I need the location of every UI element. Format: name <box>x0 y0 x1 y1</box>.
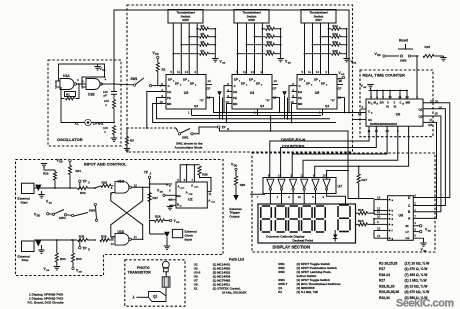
svg-text:15: 15 <box>377 226 381 230</box>
svg-text:14: 14 <box>316 70 320 74</box>
oscillator section dashed box <box>48 60 121 146</box>
svg-text:R32: R32 <box>43 171 49 175</box>
svg-text:R27: R27 <box>379 279 385 283</box>
wire digit strobe 1 <box>270 126 369 177</box>
svg-text:λ: λ <box>133 296 135 300</box>
photo transistor bulb <box>162 261 169 268</box>
svg-text:Parts List: Parts List <box>229 258 245 262</box>
svg-text:R1: R1 <box>278 290 282 294</box>
op-amp U2 box <box>176 182 207 208</box>
svg-text:R16: R16 <box>425 45 431 49</box>
wire digit strobe 4 <box>303 126 398 177</box>
svg-text:X1: X1 <box>194 286 198 290</box>
ground above R32 <box>41 163 47 165</box>
svg-text:R7: R7 <box>201 49 205 53</box>
test point TPB <box>218 126 220 128</box>
resistor R2 <box>157 59 159 63</box>
svg-text:Inh: Inh <box>167 90 171 94</box>
wire U2 Dis pin ground <box>168 199 176 201</box>
svg-text:OSCILLATOR: OSCILLATOR <box>57 137 83 142</box>
wire Q4 cascade bus <box>214 97 350 112</box>
wire decimal point drive <box>327 171 348 180</box>
svg-text:CF: CF <box>338 87 342 91</box>
wire BI LT to VDD <box>413 225 419 227</box>
photo transistor dashed box <box>125 260 185 306</box>
svg-text:R8: R8 <box>267 24 271 28</box>
wire VSS bus above U6 <box>369 90 408 92</box>
svg-text:R30: R30 <box>80 191 86 195</box>
ground U2 Bin <box>170 204 176 206</box>
svg-text:Decimal Point: Decimal Point <box>293 238 313 242</box>
wire R26 to Aout <box>200 175 212 192</box>
transistor Q1 symbol <box>149 292 167 302</box>
svg-text:U5: U5 <box>315 91 320 95</box>
counter IC U6 box <box>366 99 423 126</box>
svg-text:DP: DP <box>299 78 303 82</box>
svg-text:R29: R29 <box>102 180 108 184</box>
svg-text:R10: R10 <box>267 40 273 44</box>
resistor R26 <box>194 164 199 166</box>
svg-text:SW1: SW1 <box>182 136 189 140</box>
wire U5 Q4 to real time counter <box>344 97 346 112</box>
counter IC U3 box <box>166 75 206 110</box>
resistor network R12-R15 <box>329 28 332 30</box>
trigger output arrow <box>233 195 239 201</box>
svg-text:12: 12 <box>300 173 304 177</box>
svg-text:13: 13 <box>377 195 381 199</box>
svg-text:U6: U6 <box>396 113 401 117</box>
svg-text:St: St <box>394 105 397 109</box>
display digit 4 <box>303 205 311 207</box>
svg-text:SW5: SW5 <box>182 18 189 22</box>
wire inhibit line U3 <box>147 92 161 129</box>
wire digit strobe 3 <box>292 126 387 177</box>
svg-text:R17: R17 <box>379 267 385 271</box>
resistor 100k lower <box>113 126 116 135</box>
counter IC U5 box <box>297 75 337 110</box>
svg-text:R31: R31 <box>76 169 82 173</box>
resistor R32 <box>54 172 57 181</box>
svg-text:Q4: Q4 <box>325 104 329 108</box>
svg-text:18: 18 <box>435 111 439 115</box>
svg-text:"0": "0" <box>266 99 271 103</box>
svg-text:SW2: SW2 <box>400 59 407 63</box>
svg-text:DP: DP <box>241 82 245 86</box>
svg-text:U3: U3 <box>184 91 189 95</box>
svg-text:U1D: U1D <box>118 230 125 234</box>
ground below R3 <box>124 148 130 150</box>
svg-text:11: 11 <box>134 235 137 239</box>
wire U8 input bus verticals <box>373 200 375 214</box>
counter IC U4 box <box>232 75 272 110</box>
switch SW1 pole 2 <box>176 128 178 132</box>
resistor R33 <box>72 240 74 253</box>
resistor network R4-R7 <box>197 28 199 30</box>
svg-text:Q1: Q1 <box>153 295 157 299</box>
svg-text:11: 11 <box>177 70 180 74</box>
wire Q2 from U6 to U8 B <box>413 116 441 212</box>
external stop arrow <box>35 240 41 246</box>
svg-text:MR: MR <box>233 102 237 106</box>
switch SW4 <box>52 213 54 215</box>
wire U1A inputs <box>56 80 60 82</box>
svg-text:Start: Start <box>21 201 28 205</box>
svg-text:DD: DD <box>176 222 180 224</box>
svg-text:11: 11 <box>243 70 246 74</box>
svg-text:PE: PE <box>233 96 237 100</box>
thumbwheel switch SW7 box <box>301 10 336 24</box>
svg-text:Stop: Stop <box>22 258 29 262</box>
op-amp gate U1A <box>60 79 74 90</box>
svg-text:DD: DD <box>377 55 381 57</box>
svg-text:11: 11 <box>377 210 380 214</box>
wire PE bus <box>157 98 331 119</box>
external start arrow <box>35 185 41 191</box>
svg-text:Output: Output <box>229 214 239 218</box>
svg-text:Inh: Inh <box>298 90 302 94</box>
svg-text:R4: R4 <box>201 24 205 28</box>
resistor R27 <box>148 193 151 202</box>
svg-text:17: 17 <box>429 118 433 122</box>
wire SW1 pole2 to TPB <box>193 127 217 134</box>
resistor R30 <box>78 186 88 189</box>
external clock input box <box>172 229 182 237</box>
wire digit strobe 2 <box>281 126 377 177</box>
wire U4 Q4 drop <box>279 97 281 112</box>
svg-text:REAL TIME COUNTER: REAL TIME COUNTER <box>363 72 405 77</box>
display digit 5 <box>316 205 324 207</box>
svg-text:R12: R12 <box>333 24 339 28</box>
wire U1D output <box>131 238 143 240</box>
svg-text:DP: DP <box>256 82 260 86</box>
wire top feedback loop oscillator <box>59 64 105 81</box>
resistor R3 <box>126 137 129 146</box>
wire inhibit risers <box>219 96 221 119</box>
svg-text:R5: R5 <box>201 32 205 36</box>
svg-text:TRANSISTOR: TRANSISTOR <box>128 271 152 275</box>
svg-text:Q4: Q4 <box>194 104 198 108</box>
svg-text:R18-24: R18-24 <box>379 273 390 277</box>
wires SW5 to counter <box>172 23 174 75</box>
wires SW6 to counter <box>237 23 239 75</box>
svg-text:out: out <box>211 201 215 204</box>
svg-text:11: 11 <box>308 70 311 74</box>
gate U1B <box>86 79 100 90</box>
svg-text:Q2: Q2 <box>419 115 423 119</box>
resistor R36 <box>100 238 109 241</box>
svg-text:(4) 470 kΩ, ¼ W: (4) 470 kΩ, ¼ W <box>405 290 431 294</box>
svg-text:R29,30,35,36: R29,30,35,36 <box>379 290 399 294</box>
wire U1B output to node <box>101 83 114 85</box>
wire U2 Aout <box>207 191 211 193</box>
svg-text:14: 14 <box>185 70 189 74</box>
seven segment display box <box>258 204 356 243</box>
svg-text:R25: R25 <box>240 183 246 187</box>
svg-text:U7: U7 <box>338 185 343 189</box>
U7 driver triangles <box>267 179 274 188</box>
svg-text:R32,34: R32,34 <box>379 296 390 300</box>
svg-text:Reset: Reset <box>399 39 409 43</box>
resistor R29 <box>95 185 98 187</box>
svg-text:14: 14 <box>278 173 282 177</box>
decoder IC U8 box <box>388 196 414 241</box>
svg-text:(1) 5.1 MΩ, ¼W: (1) 5.1 MΩ, ¼W <box>297 290 319 294</box>
svg-text:DD: DD <box>37 215 41 217</box>
svg-text:P.C. Board, DCE Circuits: P.C. Board, DCE Circuits <box>28 301 64 305</box>
display digit 1 <box>262 205 270 207</box>
svg-text:DP: DP <box>314 78 318 82</box>
svg-text:R3: R3 <box>130 139 134 143</box>
wires U7 outputs to display <box>269 190 271 204</box>
display digit 2 <box>276 205 284 207</box>
wire crystal loop <box>61 99 85 123</box>
svg-text:DD: DD <box>234 165 238 167</box>
wire U8 pin13 node <box>373 199 375 201</box>
ground VSS external stop stem <box>41 245 43 250</box>
svg-text:MR: MR <box>167 102 171 106</box>
svg-text:R17: R17 <box>362 178 368 182</box>
wire R1 feedback <box>76 84 80 99</box>
wire U4 clock riser <box>224 86 227 113</box>
ground VSS SW7 network <box>343 58 349 60</box>
svg-text:Q4: Q4 <box>260 104 264 108</box>
cross coupling wires RS latch <box>111 187 143 237</box>
svg-text:Dis: Dis <box>177 194 182 198</box>
svg-text:R1: R1 <box>66 93 70 97</box>
svg-text:(1) 470 Ω, ¼ W: (1) 470 Ω, ¼ W <box>405 267 429 271</box>
wire U1C out to U2 Ain <box>143 186 150 188</box>
svg-text:Q3: Q3 <box>428 123 432 127</box>
wire U5 clock riser <box>289 86 292 113</box>
resistor R35 <box>78 238 88 241</box>
wire digit strobe 5 <box>315 126 409 177</box>
wire stop node <box>34 239 77 241</box>
wire R17 bottom to U8 pin13 line <box>358 183 360 199</box>
svg-text:DP: DP <box>234 78 238 82</box>
dashed wire accumulator select <box>127 127 176 129</box>
svg-text:com: com <box>194 187 199 189</box>
svg-text:MR: MR <box>298 102 302 106</box>
resistor R17 <box>357 174 360 183</box>
ground below 100k <box>111 137 117 139</box>
svg-text:U4: U4 <box>250 91 255 95</box>
real time counter dashed box <box>360 70 433 137</box>
svg-text:R34: R34 <box>60 257 66 261</box>
svg-text:R2: R2 <box>162 68 166 72</box>
svg-text:10: 10 <box>377 215 381 219</box>
svg-text:11: 11 <box>209 192 212 196</box>
wire U1A out to U1B in <box>77 83 87 85</box>
svg-text:DP: DP <box>249 78 253 82</box>
wire Q3 from U6 to U8 A <box>413 122 436 218</box>
wire U6 left stubs <box>361 108 367 110</box>
decimal point diode <box>333 235 338 239</box>
resistor network R8-R11 <box>262 28 265 30</box>
ground below external clock <box>166 237 168 246</box>
wire LE to VSS ground <box>413 238 423 243</box>
wires SW7 to counter <box>304 23 306 75</box>
wire common SW7 network <box>346 29 348 59</box>
wire display to R24 <box>356 223 359 225</box>
capacitor 100 pF <box>111 91 117 93</box>
svg-text:U1B: U1B <box>88 93 95 97</box>
svg-text:13: 13 <box>111 242 115 246</box>
svg-text:(3) 10 kΩ, ¼ W: (3) 10 kΩ, ¼ W <box>405 284 429 288</box>
driver IC U7 box <box>263 178 336 194</box>
svg-text:13: 13 <box>298 195 302 199</box>
svg-text:DP: DP <box>183 78 187 82</box>
svg-text:U8: U8 <box>399 214 404 218</box>
svg-text:DD: DD <box>155 54 159 56</box>
wire clock rail top <box>114 10 349 113</box>
junction arrow U4 inhibit <box>217 91 222 96</box>
photo transistor body <box>162 277 170 287</box>
svg-text:R28: R28 <box>155 215 161 219</box>
svg-text:U1A: U1A <box>63 74 70 78</box>
svg-text:R33: R33 <box>76 257 82 261</box>
junction arrow U5 inhibit <box>282 91 287 96</box>
svg-text:DISPLAY SECTION: DISPLAY SECTION <box>273 245 310 250</box>
U8 left pin stubs and numbers <box>374 199 388 201</box>
wire SW4 to SW3 <box>67 214 72 217</box>
svg-text:BI: BI <box>406 224 409 228</box>
wire MR bus <box>153 104 336 123</box>
svg-text:10: 10 <box>322 173 326 177</box>
svg-text:SW4: SW4 <box>59 216 66 220</box>
resistor R34 <box>56 240 58 253</box>
ground right of R16 <box>443 56 445 58</box>
svg-text:CF: CF <box>207 87 211 91</box>
svg-text:13: 13 <box>208 79 212 83</box>
wire TPA node down to clock input <box>149 221 151 235</box>
svg-text:R9: R9 <box>267 32 271 36</box>
resistor R1 <box>65 92 76 97</box>
svg-text:R6: R6 <box>201 40 205 44</box>
svg-text:DD: DD <box>428 230 432 232</box>
wire reset to counter MR <box>416 56 418 99</box>
display digit 6 <box>339 204 349 206</box>
wire U2 top pins to R26 <box>180 165 194 182</box>
svg-text:R2-16,25,26: R2-16,25,26 <box>379 261 398 265</box>
svg-text:DD: DD <box>341 74 345 76</box>
svg-text:DS5DS4DS3DS2DS1: DS5DS4DS3DS2DS1 <box>370 122 398 126</box>
gate U1D <box>115 234 129 246</box>
svg-text:DP: DP <box>190 82 194 86</box>
wire display to R18 <box>356 212 359 214</box>
wire accumulate bus <box>220 128 375 199</box>
svg-text:INPUT AND CONTROL: INPUT AND CONTROL <box>84 161 127 166</box>
svg-text:R26: R26 <box>202 172 208 176</box>
external stop box <box>22 241 35 252</box>
power VDD right of R28 <box>170 219 172 221</box>
svg-text:14: 14 <box>377 234 381 238</box>
svg-text:DP: DP <box>306 82 310 86</box>
svg-text:SW1: SW1 <box>131 77 138 81</box>
ground VSS external start <box>41 191 43 195</box>
wire SW1 to R2 node to U3 clock <box>152 85 166 87</box>
svg-text:SW6: SW6 <box>248 18 255 22</box>
power VDD below R33 <box>72 267 74 269</box>
svg-text:PE: PE <box>298 96 302 100</box>
svg-text:R14: R14 <box>333 40 339 44</box>
resistor 100k upper <box>113 94 115 99</box>
svg-text:DP: DP <box>175 82 179 86</box>
svg-text:10 kHz, SX1H10K: 10 kHz, SX1H10K <box>222 290 247 294</box>
svg-text:U2: U2 <box>188 198 193 202</box>
svg-text:"0": "0" <box>200 99 205 103</box>
svg-text:PHOTO: PHOTO <box>137 266 150 270</box>
ground VSS oscillator <box>94 66 100 68</box>
svg-text:13: 13 <box>274 79 278 83</box>
svg-text:R28,31,33: R28,31,33 <box>379 284 395 288</box>
svg-text:Accumulator Mode: Accumulator Mode <box>175 145 203 149</box>
display section dashed box <box>252 153 435 252</box>
svg-text:R35: R35 <box>79 235 85 239</box>
test point TPC <box>79 180 81 182</box>
svg-text:DD: DD <box>160 191 164 193</box>
wire U3 pin1 bus <box>192 115 322 117</box>
svg-text:LE: LE <box>406 236 410 240</box>
external clock arrow <box>164 232 170 238</box>
svg-text:Input: Input <box>185 237 193 241</box>
svg-text:SS: SS <box>102 70 106 72</box>
svg-text:SW3: SW3 <box>278 270 285 274</box>
svg-text:R15: R15 <box>333 49 339 53</box>
resistor R31 <box>69 162 71 166</box>
wire Q0 from U6 to U8 D <box>413 103 450 198</box>
svg-text:(1) 1 MΩ, ¼ W: (1) 1 MΩ, ¼ W <box>405 279 428 283</box>
svg-text:pF: pF <box>104 94 108 98</box>
wire SW3 lower throw <box>95 220 97 222</box>
svg-text:"0": "0" <box>331 99 336 103</box>
svg-text:U1C: U1C <box>118 179 125 183</box>
wire TPA node <box>135 185 150 187</box>
ground VSS SW5 network <box>212 58 218 60</box>
svg-text:(17) 10 kΩ, ¼ W: (17) 10 kΩ, ¼ W <box>405 261 431 265</box>
svg-text:R36: R36 <box>101 235 107 239</box>
thumbwheel switch SW5 box <box>168 10 203 24</box>
display digit 3 <box>290 205 298 207</box>
svg-text:(7) 390 Ω, ¼ W: (7) 390 Ω, ¼ W <box>405 273 429 277</box>
svg-text:Inh: Inh <box>233 90 237 94</box>
svg-text:R13: R13 <box>333 32 339 36</box>
svg-text:DD: DD <box>59 161 63 163</box>
wire Q1 from U6 to U8 C <box>413 109 445 206</box>
external start box <box>22 183 35 193</box>
svg-text:SW7: SW7 <box>315 18 322 22</box>
wire U7 pin7 stub <box>250 193 265 196</box>
divide-by-N counters dashed box <box>127 5 353 152</box>
svg-text:R27: R27 <box>152 196 158 200</box>
svg-text:SeekIC.com: SeekIC.com <box>396 298 454 309</box>
svg-text:LT: LT <box>406 230 410 234</box>
resistor R25 <box>235 171 237 177</box>
wire start node <box>34 187 77 189</box>
test point TPD <box>79 247 81 249</box>
svg-text:14: 14 <box>251 70 255 74</box>
svg-text:neg: neg <box>189 194 194 196</box>
svg-text:SW3: SW3 <box>89 208 96 212</box>
svg-text:f: f <box>392 229 393 233</box>
input and control dashed box <box>16 160 224 276</box>
wire common SW6 network <box>280 29 282 59</box>
svg-text:Q1: Q1 <box>419 108 423 112</box>
svg-text:DD: DD <box>79 272 83 274</box>
wire SW2 to R16 <box>411 55 419 57</box>
wire common SW5 network <box>214 29 216 59</box>
ground VSS SW6 network <box>277 58 283 60</box>
ground VSS below R34 <box>54 266 60 268</box>
